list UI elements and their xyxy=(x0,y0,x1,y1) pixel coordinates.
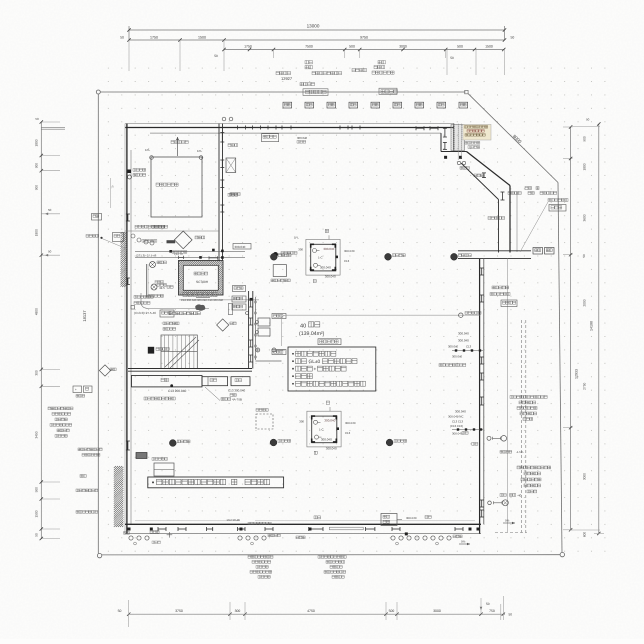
outer wall top xyxy=(125,123,454,125)
left PS label xyxy=(80,475,83,478)
room arrow xyxy=(177,137,179,156)
bottom wall xyxy=(135,520,240,522)
floor drain xyxy=(256,348,260,352)
entrance wall x222 xyxy=(218,124,220,261)
canopy dashed outline xyxy=(520,320,522,533)
site boundary top xyxy=(96,90,100,94)
right wall lower xyxy=(479,259,481,534)
stair flight xyxy=(161,335,197,369)
svg-text:300.040: 300.040 xyxy=(452,355,463,359)
scan noise xyxy=(0,0,1,1)
svg-text:1-C: 1-C xyxy=(318,256,323,260)
svg-text:(C13.3)+27.5-46: (C13.3)+27.5-46 xyxy=(134,311,156,315)
right wall lower ticks xyxy=(480,357,484,364)
svg-text:50: 50 xyxy=(118,609,122,613)
slope arrows xyxy=(503,522,515,524)
right dimension outer line xyxy=(598,124,600,534)
svg-text:600: 600 xyxy=(583,532,587,538)
left door note xyxy=(78,448,81,451)
svg-text:900: 900 xyxy=(583,136,587,142)
svg-text:300.040: 300.040 xyxy=(235,245,246,249)
bottom annotation block1 xyxy=(248,556,251,559)
small spec box xyxy=(318,339,341,345)
entrance partition lines xyxy=(135,250,245,252)
svg-text:2750: 2750 xyxy=(583,383,587,390)
svg-text:13.2 50.48: 13.2 50.48 xyxy=(226,518,240,522)
elevator shaft xyxy=(179,261,224,296)
box outside left wall xyxy=(113,233,124,242)
upper chamfer vent label xyxy=(488,217,491,220)
svg-text:C13 300.040: C13 300.040 xyxy=(228,389,246,393)
central column lower xyxy=(307,411,341,447)
bottom wall dots xyxy=(128,528,131,531)
door shaft with X xyxy=(226,158,236,173)
svg-text:+: + xyxy=(75,388,77,392)
svg-text:+: + xyxy=(314,368,317,373)
svg-text:1750: 1750 xyxy=(244,45,252,49)
washroom partition xyxy=(146,264,148,298)
svg-text:3450: 3450 xyxy=(35,431,39,438)
svg-text:5%: 5% xyxy=(505,519,510,523)
fixture box above note xyxy=(154,463,174,476)
svg-text:C13: C13 xyxy=(466,345,472,349)
upper-left wall symbols xyxy=(128,170,132,174)
svg-text:12933: 12933 xyxy=(575,369,579,379)
svg-text:C13 200.040: C13 200.040 xyxy=(168,389,186,393)
top wall pier ticks xyxy=(220,133,224,143)
hatched wall left upper xyxy=(121,232,128,287)
step verticals xyxy=(457,124,459,160)
svg-text:13000: 13000 xyxy=(307,24,320,29)
right wall upper xyxy=(509,186,511,253)
right wall upper ticks xyxy=(501,192,505,200)
bottom dimension line xyxy=(129,613,505,615)
svg-text:14100: 14100 xyxy=(590,321,594,331)
boxed label basis xyxy=(303,89,328,96)
left small boxes pair xyxy=(73,386,82,393)
svg-text:40: 40 xyxy=(300,323,306,329)
top dimension tier2 xyxy=(129,39,505,41)
right cluster boxes near core xyxy=(232,296,246,302)
beam band xyxy=(458,250,531,252)
chamfer circles xyxy=(457,161,460,164)
svg-text:(139.04m²): (139.04m²) xyxy=(299,331,325,337)
left top outside note xyxy=(79,448,81,450)
svg-text:18137: 18137 xyxy=(82,310,87,322)
svg-text:300.040: 300.040 xyxy=(324,419,335,423)
note line1 skeleton koji xyxy=(292,353,294,355)
svg-text:C13 300.040 300.040 C1: C13 300.040 300.040 C13 300.040 xyxy=(181,299,223,302)
svg-text:300.040: 300.040 xyxy=(458,339,469,343)
stair upper cluster xyxy=(163,322,166,325)
EV sill rects xyxy=(183,292,187,296)
svg-text:3000: 3000 xyxy=(399,45,407,49)
site boundary right xyxy=(558,183,562,553)
faint vertical left xyxy=(110,178,112,208)
svg-text:3000: 3000 xyxy=(583,473,587,480)
ceiling access circle right xyxy=(459,313,463,317)
GL level box xyxy=(381,514,397,526)
right wall tick upper2 xyxy=(480,397,484,405)
svg-text:500: 500 xyxy=(457,45,463,49)
svg-text:300.040: 300.040 xyxy=(344,249,355,253)
svg-text:300.040: 300.040 xyxy=(320,266,331,270)
right notes block A xyxy=(510,396,513,399)
svg-text:50: 50 xyxy=(582,254,586,258)
svg-text:50: 50 xyxy=(511,36,515,40)
svg-text:300.040 NC: 300.040 NC xyxy=(448,415,463,419)
mid-left text cluster xyxy=(134,296,137,299)
left lower note xyxy=(76,511,79,514)
svg-text:C13 C13: C13 C13 xyxy=(452,420,463,424)
washbasin circle upper xyxy=(150,262,156,268)
left wall ticks xyxy=(126,441,130,450)
svg-text:50: 50 xyxy=(486,602,490,606)
upper-left room xyxy=(151,157,202,217)
svg-text:1500: 1500 xyxy=(198,36,206,40)
svg-text:300.040: 300.040 xyxy=(297,136,308,140)
right dimension inner line xyxy=(570,127,572,530)
right notes block B xyxy=(517,466,520,469)
svg-text:3750: 3750 xyxy=(175,609,183,613)
svg-text:300.040: 300.040 xyxy=(326,447,337,451)
corridor symbols circles xyxy=(131,234,135,238)
floor drain blob xyxy=(195,304,205,310)
svg-text:3600: 3600 xyxy=(583,214,587,221)
eave line right xyxy=(506,259,508,532)
svg-text:50: 50 xyxy=(48,208,52,212)
ceiling dot label xyxy=(273,252,278,257)
bottom right small text xyxy=(500,451,503,454)
svg-text:300: 300 xyxy=(35,370,39,376)
svg-text:9750: 9750 xyxy=(360,36,368,40)
bottom small circles xyxy=(129,536,133,540)
bottom wall door panel xyxy=(329,527,363,530)
svg-text:300.040: 300.040 xyxy=(448,345,459,349)
site boundary bottom xyxy=(102,554,560,556)
hatched wall left lower xyxy=(114,466,124,527)
manhole circles xyxy=(270,253,277,260)
svg-text:900: 900 xyxy=(35,185,39,191)
svg-text:1750: 1750 xyxy=(150,36,158,40)
svg-text:300: 300 xyxy=(298,248,303,252)
boxed 300.040 left xyxy=(233,244,251,250)
inner wall left xyxy=(130,150,132,524)
note line4 pipes xyxy=(292,375,294,377)
svg-text:C13: C13 xyxy=(344,259,350,263)
svg-text:500: 500 xyxy=(349,45,355,49)
svg-text:300.040: 300.040 xyxy=(321,437,332,441)
svg-text:300.040: 300.040 xyxy=(455,410,466,414)
svg-text:50: 50 xyxy=(35,533,39,537)
svg-text:(C13.C13): (C13.C13) xyxy=(450,424,463,428)
svg-text:1FL: 1FL xyxy=(145,148,151,152)
svg-text:50: 50 xyxy=(450,56,454,60)
chamfer yellow note xyxy=(463,124,491,140)
dark pipe note xyxy=(169,312,172,315)
column grid boxes row xyxy=(283,102,292,108)
core wall vertical xyxy=(248,291,250,369)
svg-text:1FL: 1FL xyxy=(294,236,299,240)
twin circles above top wall xyxy=(222,117,226,121)
water sewer note box xyxy=(148,477,284,488)
left equipment note xyxy=(76,489,79,492)
svg-text:GL±0: GL±0 xyxy=(309,359,321,365)
svg-text:500: 500 xyxy=(389,609,395,613)
svg-text:4800: 4800 xyxy=(35,308,39,315)
sill base line xyxy=(179,299,259,301)
svg-text:300.040: 300.040 xyxy=(406,516,417,520)
left notes block xyxy=(48,407,51,410)
top dimension tier3 xyxy=(224,49,505,51)
svg-text:(2S1.3)+27.5-46: (2S1.3)+27.5-46 xyxy=(136,253,157,257)
vent labels top xyxy=(228,144,231,147)
top wall dots xyxy=(444,156,447,159)
svg-text:4A-7SB: 4A-7SB xyxy=(232,398,242,402)
svg-text:1FL: 1FL xyxy=(197,149,203,153)
chamfer wall xyxy=(467,152,511,186)
tenant area boundary line xyxy=(282,315,480,346)
svg-text:-40: -40 xyxy=(517,494,522,498)
svg-text:900: 900 xyxy=(35,487,39,493)
vertical vent label xyxy=(228,304,232,315)
svg-text:300: 300 xyxy=(299,419,304,423)
svg-text:7500: 7500 xyxy=(305,45,313,49)
beam end boxes xyxy=(533,248,543,255)
svg-text:SC700H: SC700H xyxy=(196,280,209,284)
svg-text:50: 50 xyxy=(214,54,218,58)
elevator door xyxy=(196,296,210,298)
core wall horizontal xyxy=(128,368,252,370)
svg-text:5%: 5% xyxy=(461,540,466,544)
svg-text:50: 50 xyxy=(48,249,52,253)
note line3 wall board xyxy=(292,368,294,370)
top annotation texts xyxy=(305,61,308,64)
svg-text:4750: 4750 xyxy=(307,609,315,613)
left FF label xyxy=(86,235,89,238)
svg-text:300: 300 xyxy=(235,609,241,613)
washbasin circle lower xyxy=(151,284,157,290)
mid right glass labels xyxy=(492,286,495,289)
ceiling access square xyxy=(273,265,286,277)
bottom tiny labels xyxy=(150,531,153,534)
svg-text:1800: 1800 xyxy=(583,163,587,170)
svg-text:300.040: 300.040 xyxy=(458,332,469,336)
dark box near wall xyxy=(136,453,147,459)
lobby box3 xyxy=(231,377,250,386)
extra box pair xyxy=(233,286,246,292)
dashed fixture box xyxy=(256,414,273,429)
chamfer tick xyxy=(482,173,486,178)
svg-text:1500: 1500 xyxy=(35,510,39,517)
svg-text:900: 900 xyxy=(35,163,39,169)
tenant note list box xyxy=(288,347,376,391)
top dimension tier1 13000 xyxy=(129,29,505,31)
boxed label right vent xyxy=(379,88,397,94)
vent circle-arrow at box left xyxy=(272,348,276,352)
svg-text:300.040: 300.040 xyxy=(345,421,356,425)
corridor wall xyxy=(125,230,219,232)
bottom left omega marks xyxy=(124,532,127,535)
labels below yellow note xyxy=(465,142,468,145)
svg-text:1-C: 1-C xyxy=(319,427,324,431)
inner wall top xyxy=(150,132,441,134)
svg-text:1500: 1500 xyxy=(485,45,493,49)
site boundary left xyxy=(97,94,99,553)
svg-text:300.040: 300.040 xyxy=(325,275,336,279)
box on boundary xyxy=(92,214,102,221)
machine black box xyxy=(148,347,154,354)
tenant partition wall xyxy=(254,297,256,360)
bottom annotation block2 xyxy=(318,556,321,559)
svg-text:1800: 1800 xyxy=(35,229,39,236)
top wall window ticks xyxy=(238,126,246,130)
corridor text row xyxy=(135,225,138,228)
bottom wall small labels xyxy=(314,516,317,519)
svg-text:-1.5%: -1.5% xyxy=(516,450,524,454)
corridor rounded corner xyxy=(141,293,209,309)
svg-text:50: 50 xyxy=(509,613,513,617)
svg-text:2000: 2000 xyxy=(583,299,587,306)
central column upper xyxy=(306,239,340,275)
toilet fixtures xyxy=(258,318,270,326)
site boundary diagonal xyxy=(468,94,558,183)
svg-text:12927: 12927 xyxy=(281,76,293,81)
EV top dot and tick xyxy=(199,256,202,259)
drain arrow cross xyxy=(167,534,173,536)
diamond symbol xyxy=(174,231,192,249)
washroom label xyxy=(148,295,151,298)
lobby box2 xyxy=(202,377,228,386)
svg-text:1800: 1800 xyxy=(35,139,39,146)
circle dumbbell mid xyxy=(487,436,491,440)
left dimension line xyxy=(40,122,42,539)
diamond lower xyxy=(217,319,229,331)
note line2 floor GL xyxy=(292,360,294,362)
svg-text:42.5: 42.5 xyxy=(159,286,165,290)
outer wall left xyxy=(124,124,126,534)
lobby rectangle xyxy=(132,376,203,387)
parts label xyxy=(500,494,503,497)
svg-text:50: 50 xyxy=(120,36,124,40)
svg-text:300.040: 300.040 xyxy=(452,432,463,436)
stair break line xyxy=(165,337,196,367)
svg-text:C13: C13 xyxy=(345,431,351,435)
right upper spec note xyxy=(525,187,528,190)
svg-text:750: 750 xyxy=(489,609,495,613)
left diamond xyxy=(99,365,110,376)
svg-text:300.040: 300.040 xyxy=(323,247,334,251)
step walls before chamfer xyxy=(440,133,442,151)
svg-text:3000: 3000 xyxy=(433,609,441,613)
svg-text:50: 50 xyxy=(586,118,590,122)
bottom wall window ticks xyxy=(158,527,166,531)
svg-text:50: 50 xyxy=(35,117,39,121)
chamfer hatched shaft xyxy=(451,125,465,151)
drain symbols right xyxy=(488,501,492,505)
note line5 coax cable xyxy=(292,383,294,385)
